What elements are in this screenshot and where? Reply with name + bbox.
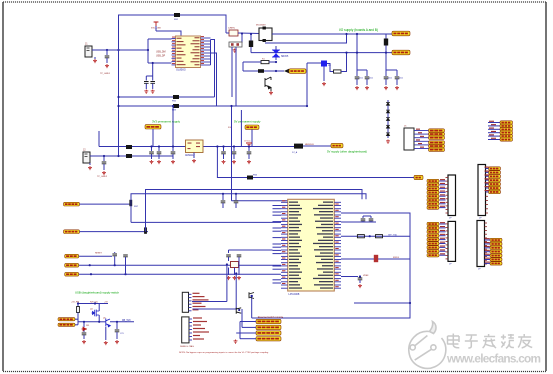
wire MCU left <box>273 279 282 281</box>
net label J8-9 <box>427 254 439 257</box>
resistor R25 <box>77 307 80 313</box>
net label EXT2 <box>500 124 513 127</box>
net label EXT3 <box>500 128 513 131</box>
junction <box>117 96 119 98</box>
wire <box>79 255 112 257</box>
svg-text:USB_DP: USB_DP <box>156 56 166 58</box>
wire <box>77 319 79 325</box>
wire <box>77 313 79 319</box>
ferrite bead FB7 <box>129 200 132 206</box>
net label J8-1 <box>427 222 439 225</box>
pin number J8-6 <box>440 242 445 243</box>
wire <box>145 84 147 90</box>
net label J6-5 <box>427 195 439 198</box>
wire VBUS loop <box>119 15 227 50</box>
transistor Q2 <box>249 292 254 298</box>
wire <box>307 62 321 64</box>
J4 pins <box>189 317 209 340</box>
wire <box>172 154 174 159</box>
wire crystal down 1 <box>231 47 233 97</box>
wire into MCU row <box>131 221 281 223</box>
junction <box>83 321 85 323</box>
junction <box>233 145 235 147</box>
wire <box>264 70 284 72</box>
capacitor <box>395 77 400 79</box>
wire <box>83 331 85 333</box>
connector J8 <box>448 221 456 261</box>
wire <box>385 53 387 76</box>
net label J9-7 <box>490 262 502 265</box>
junction <box>117 155 119 157</box>
svg-text:100n: 100n <box>369 78 373 80</box>
mosfet Q4 <box>92 310 100 317</box>
diode chain 3 <box>386 118 390 121</box>
net label RST <box>65 254 79 258</box>
capacitor <box>157 152 162 154</box>
wire <box>103 156 105 161</box>
svg-text:VREF: VREF <box>363 275 369 277</box>
capacitor <box>102 162 107 164</box>
capacitor <box>150 82 155 84</box>
wire <box>146 75 152 77</box>
ground <box>150 160 154 164</box>
wire <box>83 322 85 327</box>
connector J4 <box>182 317 189 343</box>
wire crystal down 2 <box>235 47 237 106</box>
net label console 4 <box>256 337 281 341</box>
power flag 5V0 <box>154 22 159 26</box>
svg-text:5V supply (often daughterboard: 5V supply (often daughterboard) <box>327 150 367 154</box>
wire <box>396 70 398 76</box>
junction <box>116 321 118 323</box>
pin number J6-6 <box>440 198 445 199</box>
svg-text:D7_A: D7_A <box>292 151 298 154</box>
wire <box>241 309 243 327</box>
wire <box>114 260 116 265</box>
wire <box>234 268 236 276</box>
pin number J6-1 <box>440 179 445 180</box>
junction <box>77 302 79 304</box>
wire hub to MCU <box>231 106 233 201</box>
wire net VBUS_B <box>119 105 308 107</box>
wire <box>362 221 364 222</box>
wire <box>148 38 172 40</box>
wire <box>239 322 241 339</box>
pin number J7-3 <box>485 174 490 175</box>
wire <box>103 164 105 170</box>
wire <box>341 258 410 260</box>
svg-text:ISP_TXD: ISP_TXD <box>388 234 398 236</box>
net label J7-4 <box>489 179 501 182</box>
wire J6-7 <box>440 203 446 205</box>
net label J8-6 <box>427 242 439 245</box>
capacitor <box>226 255 231 257</box>
junction <box>172 145 174 147</box>
pin number J6-2 <box>440 183 445 184</box>
wire MCU left <box>273 249 282 251</box>
wire <box>226 265 228 302</box>
net label J6-6 <box>427 198 439 201</box>
wire <box>385 79 387 85</box>
wire <box>79 273 281 275</box>
svg-text:RESET: RESET <box>95 253 103 255</box>
capacitor <box>112 254 117 256</box>
svg-text:SRV05: SRV05 <box>281 56 289 58</box>
wire <box>488 128 500 130</box>
wire <box>233 147 235 152</box>
oscillator caps block Y1 <box>229 42 242 47</box>
net label J5-6 <box>429 148 445 151</box>
junction <box>222 193 224 195</box>
wire J8-6 <box>440 243 446 245</box>
wire <box>226 32 229 34</box>
wire bus vertical 1 <box>211 40 215 98</box>
wire <box>235 194 237 200</box>
pin number J9-1 <box>485 238 490 239</box>
net label J6-7 <box>427 202 439 205</box>
ferrite bead FB5 <box>126 145 132 149</box>
wire rail 5V A <box>272 33 392 35</box>
wire <box>248 147 250 152</box>
wire 3V3 run <box>217 147 414 178</box>
wire MCU left <box>273 211 282 213</box>
wire <box>240 338 256 340</box>
ground <box>88 166 92 170</box>
wire <box>341 53 347 72</box>
crystal X1 <box>229 30 238 36</box>
ferrite bead FB8 <box>144 227 147 233</box>
wire MCU left <box>273 208 282 210</box>
pin number J9-6 <box>485 258 490 259</box>
wire J8-4 <box>440 235 446 237</box>
junction <box>359 275 361 277</box>
wire <box>99 321 106 323</box>
wire <box>385 53 387 76</box>
wire <box>94 57 96 59</box>
svg-text:Reserved switch console: Reserved switch console <box>258 316 284 319</box>
junction <box>216 145 218 147</box>
net label console 2 <box>256 325 281 329</box>
net label J6-8 <box>427 206 439 209</box>
pin number J9-4 <box>485 250 490 251</box>
wire <box>222 203 224 208</box>
svg-text:12MHz: 12MHz <box>228 28 235 30</box>
wire <box>152 129 154 147</box>
svg-text:TP_GND1: TP_GND1 <box>100 73 111 75</box>
wire <box>242 326 256 328</box>
wire USB2_DM run <box>146 190 363 232</box>
fuse/filter F1 <box>259 27 272 43</box>
wire <box>77 304 79 307</box>
wire J9-2 <box>485 243 491 245</box>
net label J6-4 <box>427 191 439 194</box>
net label J7-5 <box>489 182 501 185</box>
wire MCU left <box>273 246 282 248</box>
wire <box>488 135 500 137</box>
svg-text:DEBUG JTAG: DEBUG JTAG <box>180 345 194 348</box>
junction <box>356 33 358 35</box>
junction <box>250 33 252 35</box>
resistor R4 <box>376 235 383 238</box>
ferrite bead FB4 <box>247 176 253 180</box>
wire <box>370 221 372 222</box>
wire <box>251 296 253 318</box>
diode D5 <box>294 144 303 149</box>
wire <box>110 321 134 323</box>
capacitor <box>358 278 363 280</box>
wire MCU left <box>273 265 282 267</box>
junction <box>222 145 224 147</box>
wire <box>387 100 389 138</box>
wire J6-3 <box>440 188 446 190</box>
wire <box>98 315 100 322</box>
ground <box>365 86 369 90</box>
wire J7-1 <box>486 168 489 170</box>
wire <box>250 34 252 41</box>
transistor Q1 <box>265 77 271 91</box>
wire <box>250 47 252 53</box>
capacitor <box>232 152 237 154</box>
wire bus vertical 2 <box>211 53 217 106</box>
LED D4 (blue) <box>321 61 327 67</box>
net label J9-6 <box>490 258 502 261</box>
wire riser down <box>130 204 132 222</box>
junction <box>275 70 277 72</box>
net label J8-5 <box>427 238 439 241</box>
junction <box>385 52 387 54</box>
svg-text:100n: 100n <box>359 78 363 80</box>
ground <box>355 86 359 90</box>
junction <box>90 273 92 275</box>
pin number J6-7 <box>440 202 445 203</box>
wire J9-1 <box>485 239 491 241</box>
wire <box>92 49 148 51</box>
net label 5V0 <box>245 125 259 129</box>
wire J9-3 <box>485 247 491 249</box>
wire <box>488 132 500 134</box>
pin number J8-8 <box>440 249 445 250</box>
diode D1 body <box>384 39 388 46</box>
wire J6-6 <box>440 199 446 201</box>
net label DB_VBUS1 <box>58 318 75 321</box>
wire J7-7 <box>486 191 489 193</box>
capacitor <box>365 77 370 79</box>
svg-text:GL850G: GL850G <box>176 68 186 72</box>
wire J7-5 <box>486 183 489 185</box>
junction <box>251 295 253 297</box>
junction <box>147 49 149 51</box>
svg-text:5V permanent supply: 5V permanent supply <box>234 120 261 124</box>
U1 right pins <box>191 36 205 65</box>
wire <box>148 62 172 64</box>
wire <box>151 147 153 152</box>
wire <box>89 163 91 165</box>
net label EXT1 <box>500 121 513 124</box>
connector J3 <box>182 292 188 312</box>
net label DB_VBUS2 <box>58 323 75 326</box>
svg-text:100n: 100n <box>399 78 403 80</box>
wire <box>223 154 225 159</box>
svg-text:NOTE: No bypass caps on progra: NOTE: No bypass caps on programming inpu… <box>179 351 269 354</box>
connector J6 pins <box>446 178 449 214</box>
net label EXT6 <box>500 138 513 141</box>
pin number EXT4 <box>491 131 496 132</box>
wire <box>303 145 331 147</box>
net label ISP_E <box>65 263 79 267</box>
wire <box>238 257 240 261</box>
wire <box>323 67 325 82</box>
junction <box>235 193 237 195</box>
svg-text:D11: D11 <box>86 325 89 327</box>
net label J9-3 <box>490 246 502 249</box>
net label J8-7 <box>427 246 439 249</box>
connector J7 <box>478 165 486 216</box>
pin number J9-5 <box>485 254 490 255</box>
wire <box>359 276 361 279</box>
wire MCU left <box>273 282 282 284</box>
watermark chinese text <box>448 334 460 348</box>
junction <box>150 145 152 147</box>
capacitor <box>82 333 87 335</box>
net label J9-2 <box>490 242 502 245</box>
net label J5-4 <box>429 141 445 144</box>
resistor R1 <box>261 61 269 64</box>
wire <box>98 131 100 147</box>
capacitor <box>171 152 176 154</box>
wire J6-2 <box>440 184 446 186</box>
wire <box>242 62 244 71</box>
inductor L1 (red) <box>374 255 378 262</box>
wire <box>75 318 78 320</box>
ground <box>395 86 399 90</box>
wire <box>98 304 100 312</box>
svg-text:RXD3: RXD3 <box>393 257 400 259</box>
junction <box>248 145 250 147</box>
pin number EXT1 <box>489 121 494 122</box>
wire J9-5 <box>485 255 491 257</box>
ground <box>171 160 175 164</box>
wire <box>251 129 253 146</box>
junction <box>103 155 105 157</box>
wire <box>362 216 364 218</box>
capacitor <box>123 255 128 257</box>
wire USB2_DP run <box>131 194 366 204</box>
junction <box>306 105 308 107</box>
wire <box>269 61 276 63</box>
ground <box>234 340 238 344</box>
net label J8-3 <box>427 230 439 233</box>
wire J7-3 <box>486 175 489 177</box>
svg-text:I/O supply (boards A and B): I/O supply (boards A and B) <box>339 28 378 32</box>
capacitor <box>237 255 242 257</box>
wire vertical detect <box>306 63 308 106</box>
wire <box>79 264 281 266</box>
wire J6-8 <box>440 207 446 209</box>
wire J8-8 <box>440 250 446 252</box>
wire <box>172 147 174 152</box>
wire <box>238 261 240 275</box>
wire <box>80 203 132 205</box>
wire MCU left <box>273 205 282 207</box>
net label J5-3 <box>429 136 445 139</box>
wire J9-7 <box>485 262 491 264</box>
junction <box>94 302 96 304</box>
pin number J8-4 <box>440 234 445 235</box>
wire rail 5V B <box>251 52 392 54</box>
wire <box>125 257 127 261</box>
wire <box>243 70 258 72</box>
net label 5V_DB <box>331 143 343 147</box>
ferrite bead FB2 <box>173 95 179 99</box>
capacitor <box>144 82 149 84</box>
capacitor <box>149 152 154 154</box>
connector J8 pins <box>446 224 449 259</box>
wire <box>341 235 410 237</box>
wire J6-5 <box>440 195 446 197</box>
diode chain 2 <box>386 110 390 113</box>
capacitor <box>234 201 239 203</box>
junction <box>345 33 347 35</box>
net label EXT5 <box>500 134 513 137</box>
connector J9 pins <box>485 223 488 264</box>
transistor Q5 (PNP) <box>106 319 110 327</box>
wire <box>116 322 118 329</box>
connector J6 <box>448 175 456 216</box>
junction <box>114 264 116 266</box>
MCU U4 (LPC2468) <box>288 199 335 291</box>
ground <box>227 276 231 280</box>
wire <box>193 308 237 310</box>
crystal X2 <box>231 262 239 268</box>
svg-text:TP_GND2: TP_GND2 <box>97 176 108 178</box>
pin number J8-7 <box>440 246 445 247</box>
capacitor <box>355 77 360 79</box>
capacitor <box>221 152 226 154</box>
pin number J8-9 <box>440 253 445 254</box>
svg-text:3V3 permanent supply: 3V3 permanent supply <box>152 120 181 124</box>
wire <box>114 256 116 260</box>
net label J8-4 <box>427 234 439 237</box>
capacitor <box>384 77 389 79</box>
ground <box>105 64 109 68</box>
wire <box>156 31 181 36</box>
net label VCC_A <box>392 31 410 36</box>
connector J7 pins <box>486 167 489 213</box>
ground <box>144 90 148 94</box>
J3 pins <box>189 293 209 311</box>
ground <box>233 49 237 53</box>
junction <box>158 145 160 147</box>
net label USB2_DM <box>64 230 80 234</box>
capacitor <box>221 201 226 203</box>
wire <box>223 147 225 152</box>
net label J6-1 <box>427 179 439 182</box>
capacitor <box>369 219 374 221</box>
junction <box>124 273 126 275</box>
wire J7-2 <box>486 171 489 173</box>
ground <box>233 276 237 280</box>
junction <box>226 263 228 265</box>
ground <box>232 160 236 164</box>
connector J2 (USB B) <box>83 152 90 163</box>
junction <box>117 105 119 107</box>
wire <box>488 125 500 127</box>
capacitor <box>105 56 110 58</box>
wire <box>235 274 237 310</box>
net label J7-1 <box>489 167 501 170</box>
net label VCC_B <box>392 50 410 55</box>
net label EXT4 <box>500 131 513 134</box>
